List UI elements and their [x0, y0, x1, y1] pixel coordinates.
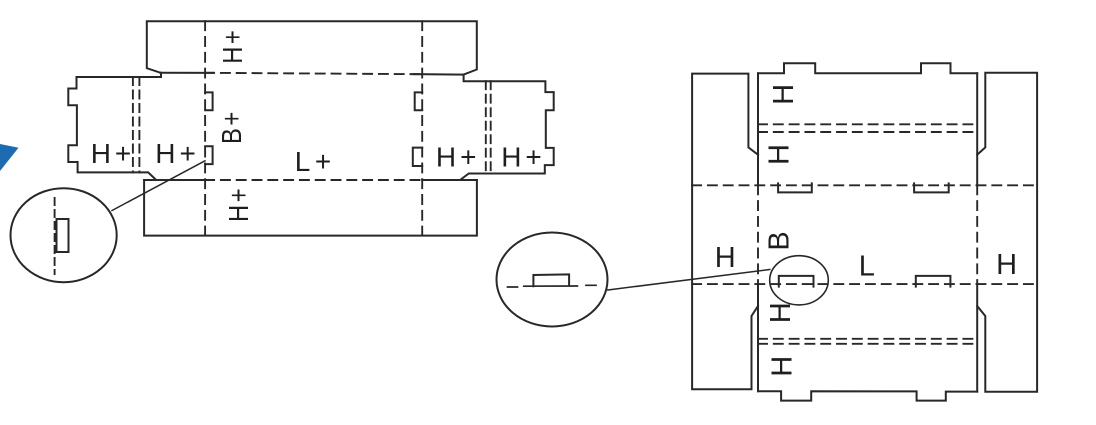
figure B : slot tab 1 below upper fold — [778, 183, 812, 192]
svg-text:H+: H+ — [91, 138, 136, 169]
figure A : top flap outline — [147, 21, 477, 74]
svg-text:H+: H+ — [501, 142, 546, 173]
figure B : centre column left edge upper (solid) — [757, 73, 759, 185]
figure A : slot tab 1 on left fold — [205, 92, 213, 110]
svg-text:B+: B+ — [215, 109, 247, 144]
figure B : centre column right edge middle fold (dashed) — [976, 185, 978, 284]
figure A : right double crease (dashed pair) — [486, 81, 491, 173]
svg-text:H+: H+ — [155, 138, 200, 169]
svg-text:H: H — [715, 242, 736, 274]
figure A : bottom flap cut line left — [144, 179, 205, 181]
svg-text:L: L — [859, 251, 875, 283]
figure A : bottom flap outline — [144, 180, 477, 236]
svg-text:H: H — [765, 302, 797, 323]
figure B : centre column right edge lower (solid) — [976, 284, 978, 392]
svg-text:H+: H+ — [436, 142, 481, 173]
svg-text:H: H — [767, 356, 799, 377]
figure B : slot tab 2 above lower fold — [916, 276, 951, 287]
figure A : slot tab 2 on right fold — [413, 148, 422, 166]
figure B : left tall panel outline — [692, 74, 758, 390]
figure A : top fold crease (dashed) — [205, 73, 422, 74]
figure B : lower fold crease (dashed, full width) — [692, 283, 1037, 285]
figure B : detail circle slot tab — [533, 274, 569, 286]
figure A : detail circle slot tab — [57, 219, 69, 252]
figure A : leader line — [112, 161, 205, 211]
figure A : detail circle — [11, 188, 117, 282]
figure B : leader line — [608, 270, 770, 291]
figure A : slot tab 1 on right fold — [415, 92, 423, 110]
figure A : left vertical fold crease (dashed) — [204, 21, 206, 235]
figure A : top flap cut line left — [160, 72, 213, 74]
figure A : right vertical fold crease (dashed) — [421, 21, 423, 235]
figure A : left side panels outline with lock notches — [68, 73, 161, 180]
figure B : slot tab 2 below upper fold — [914, 183, 949, 192]
figure B : slot tab 1 above lower fold — [779, 276, 814, 287]
figure A : detail circle fold line (dashed) — [54, 198, 56, 274]
svg-text:H: H — [764, 144, 796, 165]
svg-text:H+: H+ — [216, 28, 248, 64]
figure A : left double crease (dashed pair) — [133, 77, 140, 172]
figure B : centre column right edge upper (solid) — [976, 73, 978, 185]
figure B : centre column left edge lower (solid) — [757, 284, 759, 391]
svg-text:H: H — [996, 249, 1017, 281]
figure A : bottom fold crease (dashed) — [205, 179, 422, 181]
figure B : small highlight circle — [770, 256, 829, 305]
figure B : detail circle — [497, 233, 608, 327]
figure B : upper double crease (dashed pair) — [758, 124, 977, 132]
svg-text:B: B — [764, 231, 796, 250]
figure B : right tall panel outline — [977, 73, 1037, 392]
figure A : right side panels outline with lock notches — [460, 75, 554, 180]
figure B : upper fold crease (dashed, full width) — [692, 184, 1037, 186]
figure A : top flap cut line right — [414, 73, 464, 76]
figure B : centre column top edge with tabs — [758, 63, 977, 73]
figure B : centre column left edge middle fold (dashed) — [757, 185, 759, 284]
blue arrow fragment — [0, 144, 19, 171]
svg-text:L+: L+ — [295, 146, 336, 177]
svg-text:H+: H+ — [222, 186, 254, 222]
figure B : lower double crease (dashed pair) — [758, 339, 977, 344]
figure B : centre column bottom edge with tabs — [758, 391, 977, 400]
figure A : slot tab 2 on left fold — [205, 146, 213, 164]
figure B : detail circle fold line (dashed) — [508, 285, 597, 287]
figure A : bottom flap cut line right — [422, 179, 477, 181]
svg-text:H: H — [768, 84, 800, 105]
